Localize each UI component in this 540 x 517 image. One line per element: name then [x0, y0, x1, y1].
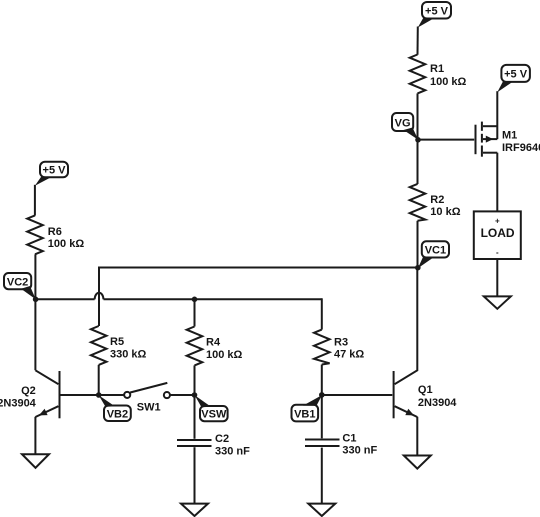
svg-text:100 kΩ: 100 kΩ	[48, 238, 85, 250]
svg-text:SW1: SW1	[137, 401, 161, 413]
transistor Q2 (2N3904, mirrored)	[0, 370, 60, 454]
net label VC1	[418, 241, 449, 268]
resistor R6	[27, 215, 84, 254]
svg-text:+5 V: +5 V	[43, 165, 67, 177]
svg-text:VC1: VC1	[425, 245, 446, 257]
svg-text:+5 V: +5 V	[425, 5, 449, 17]
capacitor C2	[177, 433, 250, 457]
wire hop over R5 vertical	[95, 293, 104, 300]
wire R5 bottom to VB2 node	[98, 365, 100, 395]
wire VC2 rail (right of hop, to R3 corner)	[104, 298, 322, 300]
power +5V flag (right, feeds M1 source)	[497, 65, 530, 92]
MOSFET M1 (IRF9640)	[476, 122, 540, 212]
wire VC1 rail corner down to R5 top (passes under hop)	[98, 267, 100, 327]
wire R2 bottom to VC1 node	[417, 221, 419, 268]
svg-text:C2: C2	[215, 433, 229, 445]
svg-text:330 kΩ: 330 kΩ	[110, 348, 147, 360]
junction R4 top on VC2 rail	[192, 297, 198, 303]
svg-text:R6: R6	[48, 226, 62, 238]
net label VSW	[195, 395, 228, 421]
svg-text:R5: R5	[110, 336, 124, 348]
wire VC1 horizontal rail	[99, 267, 418, 269]
svg-text:M1: M1	[502, 129, 517, 141]
ground (C2)	[181, 504, 208, 516]
junction node VB2	[96, 392, 102, 398]
wire VSW node down to C2	[194, 395, 196, 439]
junction node VG	[415, 137, 421, 143]
junction node VC1	[415, 265, 421, 271]
power +5V flag (left, feeds R6)	[35, 162, 68, 186]
net label VC2	[4, 273, 36, 299]
resistor R5	[91, 326, 147, 365]
wire +5V flag to R6 top	[34, 185, 36, 216]
power +5V flag (top, feeds R1)	[418, 2, 451, 28]
net label VG	[392, 113, 418, 140]
wire R4 top to VC2 rail	[194, 299, 196, 326]
svg-text:47 kΩ: 47 kΩ	[334, 349, 364, 361]
wire VB1 node to Q1 base	[322, 394, 393, 396]
svg-text:IRF9640: IRF9640	[502, 142, 540, 154]
wire VC2 rail (left of hop)	[36, 298, 95, 300]
svg-text:Q1: Q1	[418, 384, 433, 396]
resistor R4	[187, 327, 243, 366]
svg-text:330 nF: 330 nF	[342, 445, 377, 457]
svg-text:100 kΩ: 100 kΩ	[430, 76, 467, 88]
wire R3 bottom to VB1 node	[321, 365, 323, 396]
transistor Q1 (2N3904)	[394, 268, 458, 456]
svg-text:330 nF: 330 nF	[215, 445, 250, 457]
svg-text:-: -	[496, 248, 499, 257]
net label VB1	[292, 395, 323, 421]
load box LOAD	[474, 211, 521, 259]
svg-text:R1: R1	[430, 63, 444, 75]
wire +5V flag to M1 top terminal	[496, 91, 498, 139]
ground (C1)	[308, 504, 335, 516]
wire Q2 base to switch left contact	[60, 394, 125, 396]
wire VC2 node down to Q2 collector	[34, 299, 36, 370]
svg-text:R3: R3	[334, 336, 348, 348]
svg-text:+5 V: +5 V	[504, 69, 528, 81]
switch SW1	[124, 383, 170, 413]
ground (Q1 emitter)	[404, 456, 431, 469]
wire VC2 rail corner down to R3 top	[321, 298, 323, 329]
resistor R2	[410, 184, 461, 221]
wire VG node to R2 top	[417, 140, 419, 184]
wire R4 bottom to VSW node	[194, 365, 196, 395]
svg-text:100 kΩ: 100 kΩ	[206, 349, 243, 361]
wire VG node to M1 gate	[418, 139, 474, 141]
wire R1 bottom to VG node	[417, 93, 419, 139]
junction node VB1	[319, 392, 325, 398]
svg-text:+: +	[495, 217, 500, 226]
net label VB2	[99, 395, 131, 421]
resistor R1	[410, 55, 467, 94]
svg-text:Q2: Q2	[21, 385, 36, 397]
svg-text:VB2: VB2	[107, 408, 128, 420]
svg-text:R4: R4	[206, 336, 221, 348]
svg-text:VC2: VC2	[7, 276, 28, 288]
wire R6 bottom to VC2 node	[34, 254, 36, 299]
wire LOAD bottom to ground	[496, 259, 498, 296]
svg-text:10 kΩ: 10 kΩ	[430, 206, 460, 218]
svg-text:2N3904: 2N3904	[418, 397, 457, 409]
svg-text:VB1: VB1	[294, 408, 315, 420]
svg-text:2N3904: 2N3904	[0, 398, 37, 410]
wire C2 bottom to ground	[194, 447, 196, 503]
junction node VC2	[33, 297, 39, 303]
resistor R3	[314, 330, 364, 365]
wire VB1 node down to C1	[321, 395, 323, 438]
svg-text:R2: R2	[430, 194, 444, 206]
capacitor C1	[305, 432, 378, 456]
wire +5V flag to R1 top	[417, 27, 419, 55]
wire C1 bottom to ground	[321, 448, 323, 504]
wire switch right contact to VSW node	[170, 394, 194, 396]
svg-text:VSW: VSW	[201, 409, 227, 421]
ground (LOAD)	[484, 296, 511, 308]
svg-text:VG: VG	[395, 117, 411, 129]
svg-text:C1: C1	[342, 432, 356, 444]
svg-text:LOAD: LOAD	[481, 226, 515, 240]
ground (Q2 emitter)	[22, 454, 49, 468]
junction node VSW	[192, 392, 198, 398]
